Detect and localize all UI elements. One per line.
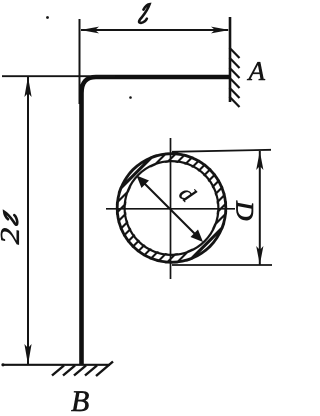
arrowhead lower-right of d — [191, 230, 204, 243]
arrowhead bottom of 2l dimension — [24, 344, 31, 365]
label d (inner diameter) — [178, 184, 197, 203]
label D (outer diameter) — [236, 201, 252, 220]
speck near corner — [129, 96, 132, 99]
ground end dot — [1, 363, 4, 366]
arrowhead right of l dimension — [211, 27, 230, 34]
wire: vertical extension line above corner — [79, 19, 81, 104]
inner circle of tube cross-section — [125, 161, 219, 255]
horizontal centerline of cross-section — [106, 208, 235, 210]
arrowhead top of D dimension — [256, 151, 263, 170]
wire: upper extension line for D — [172, 150, 271, 152]
hatch streak bottom-right of ring — [175, 140, 311, 276]
arrowhead bottom of D dimension — [256, 246, 263, 265]
label B (lower support) — [71, 391, 88, 411]
outer circle of tube cross-section — [117, 154, 226, 263]
wire: horizontal extension line at corner level — [2, 75, 115, 77]
wire: vertical dimension line for D — [259, 151, 261, 265]
arrowhead upper-left of d — [137, 176, 150, 189]
label 2l (length of vertical beam) — [1, 228, 19, 244]
ground line at support B — [2, 364, 110, 366]
label l (length of horizontal beam) — [139, 4, 150, 23]
vertical centerline of cross-section — [170, 138, 172, 279]
speck top-left — [46, 16, 49, 19]
label A (upper support) — [247, 62, 265, 80]
beam: L-shaped rod with fillet corner — [82, 77, 232, 365]
arrowhead top of 2l dimension — [24, 77, 31, 98]
ground hatching at B — [52, 362, 113, 377]
wire: lower extension line for D — [172, 264, 272, 266]
wall hatching at A — [229, 48, 239, 108]
wall line at support A — [229, 17, 232, 102]
diameter arrow d — [139, 178, 201, 240]
wire: top dimension line for l — [81, 29, 228, 31]
annulus hatching of tube cross-section — [24, 140, 320, 276]
arrowhead left of l dimension — [81, 27, 100, 34]
hatch streak top-left of ring — [33, 140, 169, 276]
wire: vertical dimension line for 2l — [27, 77, 29, 364]
